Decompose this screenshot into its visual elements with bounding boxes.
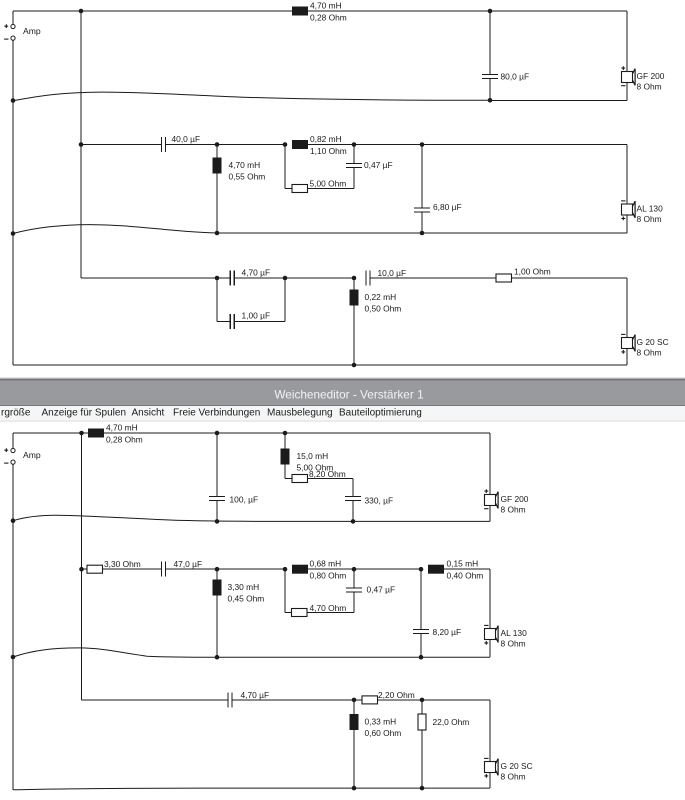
wire bottom return rail sch2: [13, 788, 490, 790]
wire notch cap lower sch2 row1: [352, 501, 354, 522]
svg-text:1,10 Ohm: 1,10 Ohm: [310, 146, 347, 156]
junction cap bottom node sch1 row1: [488, 98, 493, 103]
svg-text:GF 200: GF 200: [637, 71, 665, 81]
svg-text:22,0 Ohm: 22,0 Ohm: [433, 717, 470, 727]
junction shunt inductor foot sch1 row3: [352, 363, 357, 368]
svg-text:4,70 mH: 4,70 mH: [310, 1, 342, 11]
wire cap column lower sch1 row1: [489, 79, 491, 101]
svg-text:1,00 Ohm: 1,00 Ohm: [514, 267, 551, 277]
inductor 4,70 mH 0,55 Ohm (sch1 row2 shunt): [213, 158, 266, 182]
svg-text:100, µF: 100, µF: [230, 495, 259, 505]
wire shunt inductor lower sch1 row2: [216, 174, 218, 234]
inductor 4,70 mH 0,28 Ohm (sch1 row1): [292, 1, 347, 23]
svg-text:8 Ohm: 8 Ohm: [637, 81, 662, 91]
wire row2 main segment e sch1: [422, 144, 627, 146]
node return left row2 sch2: [11, 655, 16, 660]
svg-text:0,28 Ohm: 0,28 Ohm: [106, 435, 143, 445]
junction shunt cap top sch1 row2: [420, 142, 425, 147]
capacitor 40,0 µF (sch1 row2): [162, 134, 201, 152]
svg-text:8 Ohm: 8 Ohm: [501, 638, 526, 648]
wire top rail row1 sch2: [13, 432, 490, 434]
wire shunt inductor upper sch2 row2: [216, 569, 218, 579]
wire speaker to return sch2 row2: [489, 640, 491, 658]
wire right column row3 sch1: [626, 278, 628, 338]
wire notch to cap sch2 row1: [308, 478, 354, 480]
svg-text:AL 130: AL 130: [501, 628, 528, 638]
capacitor 6,80 µF (sch1 row2): [414, 202, 462, 212]
wire shunt resistor lower sch2 row3: [421, 730, 423, 788]
wire shunt inductor lower sch2 row3: [353, 730, 355, 788]
svg-text:8 Ohm: 8 Ohm: [501, 771, 526, 781]
svg-text:4,70 mH: 4,70 mH: [229, 160, 261, 170]
svg-text:rgröße: rgröße: [1, 408, 31, 419]
wire notch upper sch2 row1: [284, 433, 286, 449]
wire speaker to return sch1 row1: [626, 83, 628, 101]
capacitor 10,0 µF (sch1 row3): [366, 268, 406, 286]
svg-text:0,55 Ohm: 0,55 Ohm: [229, 171, 266, 181]
capacitor 1,00 µF (sch1 row3): [230, 311, 270, 330]
svg-text:15,0 mH: 15,0 mH: [297, 451, 329, 461]
amp source Amp (schematic 1): [4, 11, 41, 40]
svg-text:0,28 Ohm: 0,28 Ohm: [310, 13, 347, 23]
wire shunt cap 8,20 upper sch2 row2: [420, 569, 422, 629]
resistor 4,70 Ohm (sch2 row2): [292, 603, 347, 617]
svg-text:3,30 mH: 3,30 mH: [228, 582, 260, 592]
capacitor 80,0 µF (sch1 row1): [482, 72, 529, 82]
wire parallel cap branch left sch1 row3: [216, 278, 218, 322]
inductor 0,82 mH 1,10 Ohm (sch1 row2): [292, 134, 347, 156]
wire right column row1 sch2: [489, 433, 491, 495]
wire parallel cap branch right sch1 row3: [284, 278, 286, 322]
inductor 0,22 mH 0,50 Ohm (sch1 row3 shunt): [350, 290, 402, 314]
svg-text:8 Ohm: 8 Ohm: [637, 214, 662, 224]
wire row3 main segment b sch2: [232, 699, 362, 701]
junction shunt inductor foot sch2 row2: [215, 655, 220, 660]
junction shunt inductor top sch2 row3: [352, 698, 357, 703]
svg-text:5,00 Ohm: 5,00 Ohm: [310, 179, 347, 189]
inductor 3,30 mH 0,45 Ohm (sch2 row2 shunt): [213, 580, 265, 604]
svg-text:Freie Verbindungen: Freie Verbindungen: [173, 408, 260, 419]
svg-text:47,0 µF: 47,0 µF: [174, 559, 203, 569]
wire free connection return row1 sch2: [13, 515, 490, 521]
junction notch foot sch2 row1: [351, 519, 356, 524]
resistor 1,00 Ohm (sch1 row3): [496, 267, 551, 283]
wire shunt inductor upper sch2 row3: [353, 700, 355, 714]
wire left vertical bus sch1: [12, 41, 14, 365]
svg-text:0,60 Ohm: 0,60 Ohm: [365, 728, 402, 738]
svg-text:0,33 mH: 0,33 mH: [365, 716, 397, 726]
capacitor 330, µF (sch2 row1): [345, 496, 393, 506]
wire speaker to return sch2 row3: [489, 773, 491, 789]
speaker GF 200 8 Ohm (sch2): [484, 489, 529, 514]
inductor 0,15 mH 0,40 Ohm (sch2 row2): [428, 559, 483, 581]
junction shunt cap 8,20 foot sch2 row2: [419, 655, 424, 660]
wire notch elbow sch2 row1: [285, 478, 292, 480]
capacitor 0,47 µF (sch1 row2): [346, 160, 393, 170]
wire row2 main segment c sch2: [308, 568, 421, 570]
menu bar bottom border: [0, 421, 685, 422]
wire shunt cap 100 lower sch2: [216, 501, 218, 522]
junction shunt inductor top sch1 row2: [215, 142, 220, 147]
speaker AL 130 8 Ohm (sch1): [621, 201, 663, 224]
junction shunt cap 100 top sch2 row1: [215, 431, 220, 436]
junction row2 feed sch1: [79, 142, 84, 147]
svg-text:Bauteiloptimierung: Bauteiloptimierung: [339, 408, 422, 419]
junction shunt inductor top sch2 row2: [215, 567, 220, 572]
wire row2 main segment a sch2: [103, 568, 162, 570]
svg-text:Ansicht: Ansicht: [132, 408, 165, 419]
capacitor 100, µF (sch2 row1): [209, 495, 258, 505]
wire shunt inductor lower sch1 row3: [353, 306, 355, 366]
wire parallel branch down-left sch2 row2: [284, 569, 286, 612]
wire notch cap upper sch2 row1: [352, 479, 354, 497]
junction feed node sch2: [79, 431, 84, 436]
svg-text:Anzeige für Spulen: Anzeige für Spulen: [42, 408, 127, 419]
wire right column row3 sch2: [489, 700, 491, 762]
svg-text:Amp: Amp: [23, 26, 41, 36]
node return left row1 sch1: [11, 98, 16, 103]
svg-text:0,82 mH: 0,82 mH: [310, 134, 342, 144]
svg-text:8 Ohm: 8 Ohm: [501, 504, 526, 514]
wire parallel cap branch bottom-right sch1 row3: [234, 321, 285, 323]
svg-text:8 Ohm: 8 Ohm: [637, 347, 662, 357]
wire shunt cap 8,20 lower sch2 row2: [420, 634, 422, 658]
wire right column row2 sch2: [489, 569, 491, 628]
svg-text:4,70 mH: 4,70 mH: [106, 423, 138, 433]
capacitor 0,47 µF (sch2 row2): [346, 585, 395, 595]
wire shunt cap 100 upper sch2: [216, 433, 218, 497]
capacitor 47,0 µF (sch2 row2): [162, 559, 203, 577]
resistor 3,30 Ohm (sch2 row2): [87, 559, 141, 573]
window border dark line: [0, 379, 685, 381]
svg-text:10,0 µF: 10,0 µF: [378, 268, 407, 278]
node return left row2 sch1: [11, 231, 16, 236]
junction shunt cap 100 foot sch2: [215, 519, 220, 524]
wire feed vertical sch1: [80, 11, 82, 278]
speaker G 20 SC 8 Ohm (sch1): [621, 334, 669, 357]
junction parallel right sch1 row2: [352, 142, 357, 147]
wire row2 stub sch2: [82, 568, 88, 570]
svg-text:AL 130: AL 130: [637, 203, 664, 213]
capacitor 8,20 µF (sch2 row2): [413, 627, 461, 637]
title bar bottom edge: [0, 405, 685, 406]
svg-text:1,00 µF: 1,00 µF: [242, 311, 271, 321]
svg-text:330, µF: 330, µF: [365, 496, 394, 506]
svg-text:G 20 SC: G 20 SC: [501, 761, 533, 771]
wire row2 main segment b sch2: [166, 568, 286, 570]
junction parallel caps left sch1 row3: [215, 276, 220, 281]
svg-text:0,50 Ohm: 0,50 Ohm: [365, 303, 402, 313]
wire row3 main segment c sch1: [370, 277, 496, 279]
svg-text:0,68 mH: 0,68 mH: [310, 559, 342, 569]
wire row3 main segment b sch1: [234, 277, 354, 279]
wire cap 0,47 upper sch1 row2: [353, 145, 355, 164]
svg-text:0,15 mH: 0,15 mH: [447, 559, 479, 569]
wire parallel branch bottom-right sch2 row2: [307, 612, 354, 614]
wire cap 0,47 lower sch1 row2: [353, 168, 355, 189]
wire speaker to return sch1 row3: [626, 349, 628, 366]
junction parallel left sch2 row2: [283, 567, 288, 572]
svg-text:Weicheneditor - Verstärker 1: Weicheneditor - Verstärker 1: [274, 388, 423, 402]
resistor 22,0 Ohm (sch2 row3 shunt): [418, 714, 469, 730]
svg-text:GF 200: GF 200: [501, 494, 529, 504]
junction parallel caps right sch1 row3: [283, 276, 288, 281]
wire parallel branch bottom-right sch1 row2: [308, 188, 355, 190]
inductor 15,0 mH 5,00 Ohm (sch2 row1): [281, 449, 334, 473]
svg-text:8,20 µF: 8,20 µF: [433, 627, 462, 637]
wire shunt inductor lower sch2 row2: [216, 596, 218, 658]
wire right column row2 sch1: [626, 145, 628, 205]
svg-text:0,47 µF: 0,47 µF: [367, 585, 396, 595]
wire bottom return rail sch1: [13, 364, 627, 366]
junction shunt resistor top sch2 row3: [420, 698, 425, 703]
wire row2 main segment a sch1: [81, 144, 162, 146]
svg-text:0,80 Ohm: 0,80 Ohm: [310, 571, 347, 581]
junction return inductor foot sch1 row2: [215, 231, 220, 236]
node return left row1 sch2: [11, 518, 16, 523]
wire shunt inductor upper sch1 row3: [353, 278, 355, 290]
wire cap 0,47 upper sch2 row2: [353, 569, 355, 588]
wire parallel branch bottom-left sch1 row2: [285, 188, 292, 190]
svg-text:0,47 µF: 0,47 µF: [364, 160, 393, 170]
junction shunt cap 8,20 top sch2 row2: [419, 567, 424, 572]
window border light line: [0, 377, 685, 379]
svg-text:4,70 Ohm: 4,70 Ohm: [310, 603, 347, 613]
wire row2 main segment d sch1: [354, 144, 422, 146]
svg-text:Amp: Amp: [23, 450, 41, 460]
wire row2 main segment b sch1: [166, 144, 286, 146]
svg-text:80,0 µF: 80,0 µF: [501, 72, 530, 82]
inductor 0,68 mH 0,80 Ohm (sch2 row2): [292, 559, 346, 581]
wire shunt cap upper sch1 row2: [421, 145, 423, 209]
amp source Amp (schematic 2): [4, 433, 41, 464]
wire speaker to return sch2 row1: [489, 506, 491, 522]
junction row2 feed sch2: [79, 567, 84, 572]
capacitor 4,70 µF (sch1 row3): [230, 268, 270, 286]
wire free connection return row1 sch1: [13, 92, 490, 101]
wire parallel branch down-left sch1 row2: [284, 145, 286, 189]
menu bar: [0, 406, 685, 421]
wire free connection return row2 sch2: [13, 648, 490, 657]
resistor 2,20 Ohm (sch2 row3): [362, 690, 415, 704]
speaker AL 130 8 Ohm (sch2): [484, 625, 527, 648]
speaker G 20 SC 8 Ohm (sch2): [484, 758, 533, 781]
wire shunt cap lower sch1 row2: [421, 212, 423, 233]
junction shunt inductor top sch1 row3: [352, 276, 357, 281]
wire speaker to return sch1 row2: [626, 215, 628, 233]
wire return rail right part row2 sch1: [217, 232, 627, 234]
svg-text:4,70 µF: 4,70 µF: [242, 268, 271, 278]
wire right column to speaker sch1 row1: [626, 11, 628, 72]
wire notch mid sch2 row1: [284, 465, 286, 479]
junction feed node sch1: [79, 9, 84, 14]
wire left vertical bus sch2: [12, 464, 14, 790]
svg-text:G 20 SC: G 20 SC: [637, 337, 669, 347]
wire cap column upper sch1 row1: [489, 11, 491, 75]
svg-text:2,20 Ohm: 2,20 Ohm: [378, 690, 415, 700]
wire shunt resistor upper sch2 row3: [421, 700, 423, 714]
speaker GF 200 8 Ohm (sch1): [621, 66, 665, 91]
wire parallel cap branch bottom-left sch1 row3: [217, 321, 230, 323]
inductor 0,33 mH 0,60 Ohm (sch2 row3 shunt): [350, 714, 402, 738]
wire free connection return row2 sch1: [13, 225, 217, 234]
junction shunt cap bottom sch1 row2: [420, 231, 425, 236]
wire row3 main segment a sch2: [82, 699, 229, 701]
wire feed vertical sch2: [81, 433, 83, 700]
junction cap top node sch1 row1: [488, 9, 493, 14]
wire shunt inductor upper sch1 row2: [216, 145, 218, 158]
inductor 4,70 mH 0,28 Ohm (sch2 row1): [88, 423, 143, 445]
title bar Weicheneditor: [0, 381, 685, 405]
svg-text:4,70 µF: 4,70 µF: [241, 690, 270, 700]
wire cap 0,47 lower sch2 row2: [353, 592, 355, 613]
wire parallel branch bottom-left sch2 row2: [285, 612, 292, 614]
svg-text:6,80 µF: 6,80 µF: [433, 202, 462, 212]
svg-text:0,40 Ohm: 0,40 Ohm: [447, 571, 484, 581]
wire top rail row1 sch1: [13, 10, 627, 12]
wire row3 main segment d sch1: [512, 277, 628, 279]
junction parallel right sch2 row2: [352, 567, 357, 572]
resistor 8,20 Ohm (sch2 row1): [292, 469, 346, 483]
svg-text:0,22 mH: 0,22 mH: [365, 292, 397, 302]
wire row2 main segment c sch1: [308, 144, 354, 146]
resistor 5,00 Ohm (sch1 row2): [292, 179, 346, 193]
svg-text:3,30 Ohm: 3,30 Ohm: [104, 559, 141, 569]
junction notch top sch2 row1: [283, 431, 288, 436]
svg-text:Mausbelegung: Mausbelegung: [267, 408, 333, 419]
wire return rail right part row1 sch1: [490, 99, 627, 101]
svg-text:8,20 Ohm: 8,20 Ohm: [309, 469, 346, 479]
junction parallel left sch1 row2: [283, 142, 288, 147]
wire row2 main segment d sch2: [444, 568, 490, 570]
svg-text:0,45 Ohm: 0,45 Ohm: [228, 593, 265, 603]
junction shunt resistor foot sch2 row3: [420, 786, 425, 791]
junction shunt inductor foot sch2 row3: [352, 786, 357, 791]
wire row3 main segment a sch1: [81, 277, 230, 279]
wire row3 main segment c sch2: [378, 699, 491, 701]
capacitor 4,70 µF (sch2 row3): [228, 690, 269, 707]
svg-text:40,0 µF: 40,0 µF: [172, 134, 201, 144]
